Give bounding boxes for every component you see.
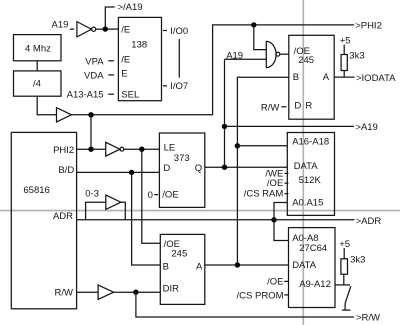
switch S1 <box>344 303 346 310</box>
wire A16-A18 branch <box>237 145 287 147</box>
wire A19 riser <box>224 59 226 167</box>
svg-text:>PHI2: >PHI2 <box>355 20 382 31</box>
wire /OE tick <box>284 280 288 282</box>
svg-text:R/W: R/W <box>55 288 74 299</box>
wire ADR to 512K A0.A15 <box>274 203 287 220</box>
svg-text:/OE: /OE <box>162 189 178 200</box>
svg-text:/CS PROM: /CS PROM <box>237 291 284 302</box>
wire 0 tick <box>154 194 158 196</box>
wire clock to >PHI2 rail <box>71 25 354 115</box>
svg-text:/OE: /OE <box>267 178 283 189</box>
svg-text:R: R <box>305 100 312 111</box>
svg-text:B: B <box>293 72 299 83</box>
svg-text:/E: /E <box>121 54 130 65</box>
oscillator 4 Mhz <box>14 35 62 61</box>
svg-text:+5: +5 <box>340 36 351 47</box>
junction A19 rail <box>222 124 227 129</box>
wire A19 to NAND input <box>225 58 267 60</box>
wire A9-A12 pin <box>335 284 350 286</box>
wire R/W buffer out to DIR <box>114 291 161 293</box>
svg-text:A13-A15: A13-A15 <box>67 90 104 101</box>
svg-text:/OE: /OE <box>267 276 283 287</box>
resistor R1 3k3 <box>341 55 347 71</box>
junction dot /A19 <box>103 26 108 31</box>
svg-text:Q: Q <box>195 163 202 174</box>
svg-text:A: A <box>323 72 330 83</box>
svg-text:PHI2: PHI2 <box>53 145 74 156</box>
wire /CS PROM tick <box>284 294 288 296</box>
svg-text:LE: LE <box>164 143 176 154</box>
svg-text:0-3: 0-3 <box>85 189 99 200</box>
wire inverter out to 138 /E <box>96 28 119 30</box>
wire R/W tick <box>281 106 286 108</box>
junction clock/PHI2 <box>88 112 93 117</box>
svg-text:3k3: 3k3 <box>350 255 365 266</box>
svg-text:DIR: DIR <box>163 283 180 294</box>
wire VPA tick <box>108 60 114 62</box>
svg-text:A0.A15: A0.A15 <box>292 198 323 209</box>
buffer U10 (R/W) <box>98 285 114 299</box>
wire CPU PHI2 to inverter <box>77 148 106 150</box>
svg-text:I/O7: I/O7 <box>170 81 188 92</box>
cpu 65816 <box>11 132 76 308</box>
junction data bus <box>235 262 240 267</box>
wire 4Mhz to /4 <box>36 61 38 71</box>
wire CPU B/D to 373 D <box>77 171 160 173</box>
svg-text:D: D <box>163 163 170 174</box>
wire >A19 rail <box>225 125 355 127</box>
svg-text:A19: A19 <box>52 19 69 30</box>
svg-text:245: 245 <box>171 248 187 259</box>
wire VDA tick <box>108 74 114 76</box>
svg-text:I/O0: I/O0 <box>170 26 188 37</box>
wire 245 A to >IODATA <box>334 76 354 78</box>
wire inverter out to 373 LE <box>124 148 160 150</box>
svg-text:/E: /E <box>121 25 130 36</box>
svg-text:A16-A18: A16-A18 <box>292 137 329 148</box>
junction B/D <box>129 170 134 175</box>
svg-text:E: E <box>121 68 127 79</box>
wire 245 A to 27C64 DATA <box>205 264 289 266</box>
inverter U2 (A19) <box>77 22 92 37</box>
svg-text:3k3: 3k3 <box>349 50 364 61</box>
wire 373 Q to 512K DATA <box>205 166 287 168</box>
wire /4 to clock buffer <box>37 96 56 115</box>
junction ADR / memory address <box>271 217 276 222</box>
buffer U8 (0-3) <box>106 195 121 209</box>
svg-text:D: D <box>294 100 301 111</box>
wire resistor to A9-A12 <box>343 274 345 285</box>
ram 512K <box>287 133 334 216</box>
wire I/O bus <box>178 39 180 78</box>
wire clock down to CPU PHI2 <box>90 115 92 149</box>
wire inverted PHI2 down to 245 /OE <box>142 149 161 243</box>
svg-text:VDA: VDA <box>84 70 104 81</box>
svg-text:27C64: 27C64 <box>299 243 327 254</box>
svg-text:>ADR: >ADR <box>356 216 382 227</box>
buffer U7 245 (I/O) <box>289 35 334 119</box>
svg-text:4 Mhz: 4 Mhz <box>25 44 51 55</box>
wire PHI2 down to NAND input <box>254 25 266 50</box>
svg-text:R/W: R/W <box>261 103 280 114</box>
wire +5 stub <box>343 248 345 259</box>
prom 27C64 <box>289 228 336 308</box>
wire buffer out to ADR <box>121 202 125 220</box>
svg-text:65816: 65816 <box>23 185 49 196</box>
svg-text:B: B <box>163 261 169 272</box>
svg-text:SEL: SEL <box>121 90 139 101</box>
inverter U4 (PHI2) <box>106 142 120 156</box>
pin I/O7 <box>163 85 167 87</box>
svg-text:VPA: VPA <box>85 56 104 67</box>
junction Q/A19 riser <box>222 165 227 170</box>
wire /WE tick <box>285 172 289 174</box>
node >/A19 stub wire <box>105 7 114 29</box>
divider /4 <box>14 71 62 96</box>
svg-text:A9-A12: A9-A12 <box>299 279 331 290</box>
wire B/D down to 245 B <box>132 172 161 265</box>
wire CPU R/W to buffer <box>77 291 99 293</box>
svg-text:ADR: ADR <box>53 211 73 222</box>
svg-text:245: 245 <box>298 55 314 66</box>
buffer U9 245 (data) <box>160 234 205 304</box>
wire +5 stub <box>343 45 345 55</box>
wire CPU ADR rail <box>77 219 355 221</box>
wire ADR to 27C64 A0-A8 <box>274 220 289 241</box>
junction PHI2/NAND <box>251 22 256 27</box>
nand gate U6 <box>266 41 276 67</box>
wire /OE tick <box>285 182 289 184</box>
svg-text:/CS RAM: /CS RAM <box>244 188 284 199</box>
svg-text:DATA: DATA <box>292 260 317 271</box>
svg-text:>IODATA: >IODATA <box>356 73 396 84</box>
wire ADR up to buffer input <box>86 202 106 220</box>
decoder U1 138 <box>118 17 161 100</box>
junction inverted PHI2 <box>139 147 144 152</box>
junction R/W <box>133 290 138 295</box>
svg-text:B/D: B/D <box>58 165 74 176</box>
junction PHI2/clock <box>88 147 93 152</box>
svg-text:373: 373 <box>174 153 190 164</box>
svg-text:/4: /4 <box>33 79 41 90</box>
wire NAND out to 245 /OE <box>280 53 289 55</box>
resistor R2 3k3 <box>341 259 348 274</box>
svg-text:>/A19: >/A19 <box>118 2 143 13</box>
wire 245 B to data bus <box>237 77 288 265</box>
pin I/O0 <box>163 30 167 32</box>
wire A19 input tick <box>70 28 74 30</box>
wire resistor to IODATA <box>343 71 345 78</box>
wire R/W down to >R/W rail <box>136 292 354 317</box>
svg-text:DATA: DATA <box>294 161 319 172</box>
svg-text:0: 0 <box>148 190 153 201</box>
svg-text:>R/W: >R/W <box>356 312 380 323</box>
svg-text:>A19: >A19 <box>355 122 377 133</box>
latch U5 373 <box>159 133 204 207</box>
svg-text:138: 138 <box>131 40 147 51</box>
junction data bus / A16-A18 <box>235 143 240 148</box>
svg-text:A: A <box>196 261 203 272</box>
buffer U3 (clock) <box>57 108 72 122</box>
wire SEL tick <box>108 93 114 95</box>
wire /CS RAM tick <box>285 193 289 195</box>
svg-text:512K: 512K <box>299 175 322 186</box>
